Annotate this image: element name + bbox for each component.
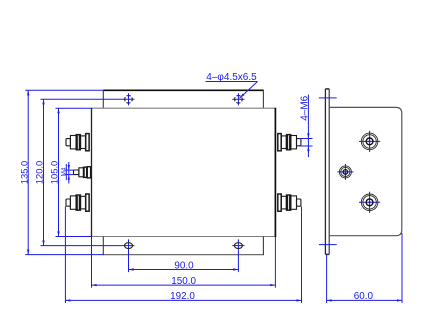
bottom flange plate [103, 237, 263, 256]
mounting slot top-left [125, 96, 133, 104]
terminal M4 middle-left (ground) [74, 167, 91, 178]
terminal M6 bottom-left [66, 194, 89, 211]
side screw head top (M6) [359, 131, 380, 152]
arrows of dimension 150.0 [92, 284, 97, 286]
svg-text:135.0: 135.0 [18, 161, 29, 184]
arrows of dimension 135.0 [27, 90, 29, 95]
terminal M6 top-left [66, 134, 89, 151]
arrows of dimension 60.0 [327, 299, 332, 301]
extension line body right (150.0) [274, 237, 276, 288]
arrows of M6 stud dimension [307, 133, 309, 138]
side ground screw (M4) [337, 164, 353, 180]
M4 text underline [65, 164, 67, 180]
dimension line 120.0 [43, 99, 45, 245]
arrows of dimension 105.0 [57, 108, 59, 113]
svg-text:192.0: 192.0 [170, 291, 195, 302]
terminal M6 top-right [278, 134, 301, 151]
dimension line 192.0 [65, 299, 301, 301]
label underline 4-4.5x6.5 [206, 81, 258, 83]
svg-text:4–φ4.5x6.5: 4–φ4.5x6.5 [206, 72, 257, 83]
extension line body left (150.0) [91, 237, 93, 288]
leader to top-right slot [240, 82, 258, 99]
center line vertical of top-left slot [128, 93, 130, 105]
side mounting plate [325, 89, 329, 255]
svg-text:150.0: 150.0 [171, 276, 196, 287]
extension line flange bottom (135.0) [25, 254, 103, 256]
side hole center tick top [319, 97, 337, 99]
arrows of dimension 120.0 [42, 99, 44, 104]
extension line flange top (135.0) [25, 89, 103, 91]
side screw head bottom (M6) [359, 192, 380, 213]
extension line hole row top (120.0) [41, 98, 135, 100]
svg-text:M4: M4 [61, 167, 68, 176]
extension line left stud tip (192.0) [64, 206, 66, 303]
extension line body bottom (105.0) [56, 236, 92, 238]
extension line right stud tip (192.0) [301, 206, 303, 303]
arrows of dimension 90.0 [129, 268, 134, 270]
leader arrowhead at slot [239, 94, 244, 99]
svg-text:90.0: 90.0 [174, 260, 194, 271]
center lines of bottom-right slot [232, 245, 244, 247]
dimension line 90.0 [129, 269, 239, 271]
mounting slot bottom-right [234, 243, 242, 249]
svg-text:4–M6: 4–M6 [300, 95, 311, 120]
M6 leader line [307, 95, 309, 157]
svg-text:120.0: 120.0 [34, 161, 45, 184]
extension line hole row bottom (120.0) [41, 245, 135, 247]
dimension line 150.0 [92, 284, 276, 286]
arrows of dimension 192.0 [65, 299, 70, 301]
top flange plate [103, 90, 263, 109]
dimension line 60.0 [327, 299, 402, 301]
side body outline with rounded right corners [329, 107, 402, 235]
extension line body top (105.0) [56, 107, 92, 109]
M4 stud dia extension lines [65, 169, 74, 171]
dimension line 135.0 [27, 90, 29, 254]
mounting slot top-right [235, 96, 243, 104]
side hole center tick bottom [319, 244, 337, 246]
svg-text:60.0: 60.0 [354, 291, 374, 302]
svg-text:105.0: 105.0 [49, 161, 60, 184]
center lines of top-right slot [232, 98, 244, 100]
extension line side body right (60.0) [401, 233, 403, 303]
extension line bottom-right slot (90.0) [237, 239, 239, 272]
M4 dimension line [68, 162, 70, 184]
extension line side plate left (60.0) [326, 254, 328, 303]
arrows of M4 stud dimension [68, 165, 70, 170]
M6 stud dia extension lines [299, 138, 313, 140]
dimension line 105.0 [58, 108, 60, 236]
main body rectangle [92, 108, 276, 237]
extension line bottom-left slot (90.0) [128, 239, 130, 272]
mounting slot bottom-left [125, 243, 133, 249]
terminal M6 bottom-right [278, 194, 301, 211]
